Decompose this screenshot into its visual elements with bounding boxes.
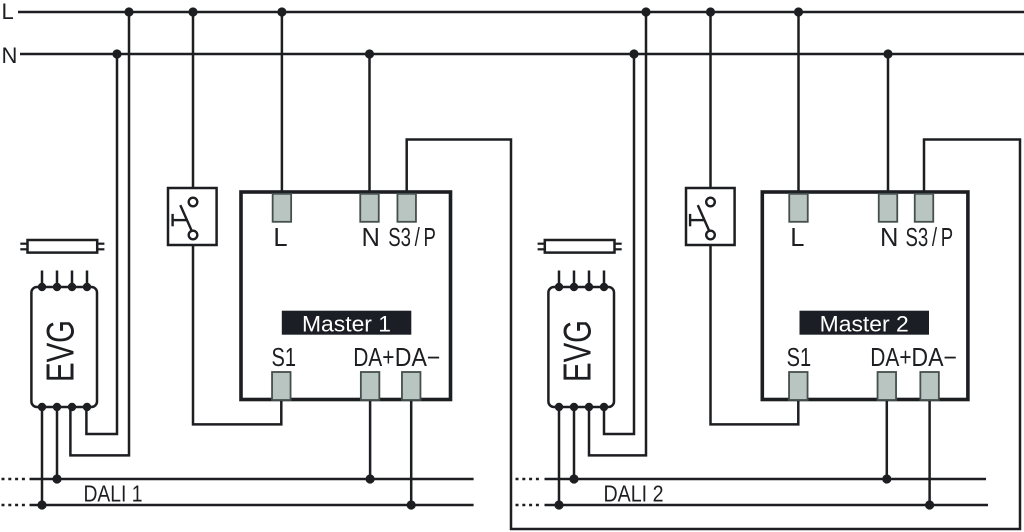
svg-text:L: L (790, 224, 804, 252)
svg-text:DA−: DA− (911, 344, 957, 372)
svg-text:S1: S1 (787, 344, 812, 372)
svg-text:DALI 1: DALI 1 (84, 480, 143, 506)
svg-text:DA+: DA+ (353, 344, 394, 372)
svg-text:DALI 2: DALI 2 (604, 480, 664, 506)
svg-text:DA+: DA+ (870, 344, 911, 372)
svg-text:L: L (2, 0, 14, 24)
svg-text:S3 / P: S3 / P (906, 224, 954, 252)
svg-text:DA−: DA− (395, 344, 441, 372)
svg-text:EVG: EVG (40, 320, 83, 382)
svg-text:N: N (880, 224, 898, 252)
svg-text:L: L (273, 224, 287, 252)
svg-text:Master 1: Master 1 (302, 311, 391, 336)
svg-text:S3 / P: S3 / P (388, 224, 436, 252)
svg-text:EVG: EVG (557, 320, 600, 382)
svg-text:S1: S1 (272, 344, 297, 372)
svg-text:N: N (2, 43, 18, 68)
svg-text:Master 2: Master 2 (820, 311, 909, 336)
svg-text:N: N (362, 224, 380, 252)
